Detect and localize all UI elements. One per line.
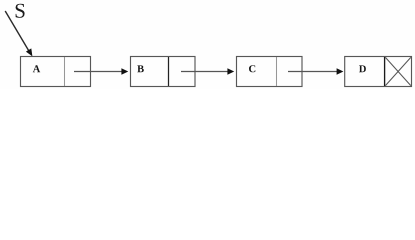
wire C to D (288, 68, 343, 74)
node D box (345, 57, 412, 87)
node C divider (276, 57, 278, 86)
node A box (21, 57, 91, 87)
node B label (137, 65, 144, 72)
node B divider (168, 57, 170, 86)
node A label (33, 65, 40, 72)
node S label (16, 4, 25, 18)
node C label (249, 65, 255, 72)
node D null cross (385, 57, 410, 85)
node B box (131, 57, 196, 87)
wire S arrow to node A (5, 11, 32, 56)
node D divider (384, 57, 386, 86)
wire A to B (74, 68, 128, 74)
node A divider (64, 57, 66, 86)
node C box (237, 57, 303, 87)
node D label (359, 65, 366, 72)
wire B to C (181, 68, 234, 74)
